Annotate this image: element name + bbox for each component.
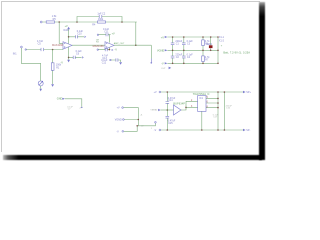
svg-text:IC1: IC1 [199,97,203,100]
resistor R6 [202,37,204,50]
capacitor C16 vertical B [223,92,225,130]
svg-text:+V: +V [161,36,164,39]
svg-text:+V: +V [154,91,157,94]
wire top net [42,21,137,23]
wire ic gnd stub [201,111,203,130]
resistor R7 [202,50,204,63]
svg-text:LED1: LED1 [206,43,213,46]
power -V op-amp1 [68,47,70,60]
IC IC1 TDA7052 [198,96,206,112]
svg-text:-V: -V [161,63,164,66]
LED LED1 [210,37,212,50]
capacitor C11 [97,34,98,35]
svg-text:C17: C17 [213,117,218,119]
svg-text:IN1: IN1 [13,53,17,56]
power +V op-amp2 [108,35,110,43]
svg-text:MAX4166: MAX4166 [52,44,64,47]
capacitor C10 [68,36,70,38]
wire row1 [124,108,139,120]
wire feedback vertical [136,22,152,45]
svg-text:+V: +V [65,25,68,28]
resistor R1 [52,49,54,51]
svg-text:R1: R1 [56,66,60,69]
capacitor C2b [172,50,174,63]
svg-text:-V: -V [116,131,119,134]
wire row2 [124,120,155,126]
wire +V rail [167,36,218,38]
svg-text:+V: +V [117,107,120,110]
capacitor C12 run [110,59,111,60]
pin IN1 [20,46,22,48]
pin P2 top net [40,21,42,23]
svg-text:SP+: SP+ [246,91,251,94]
capacitor C3 [183,37,185,50]
svg-text:GND: GND [57,98,63,101]
capacitor C2 [99,15,102,18]
wire VGND rail [167,49,218,51]
microphone MK1 [38,81,43,86]
buffer U2 [174,105,182,115]
svg-text:C16: C16 [226,108,231,110]
capacitor C4 [183,50,185,63]
wire output down [150,45,152,58]
svg-text:+: + [221,45,223,48]
svg-text:BUF634P: BUF634P [173,103,185,106]
ground arrow R1 [51,84,54,87]
svg-text:X1-2: X1-2 [219,39,225,42]
svg-text:1: 1 [151,128,153,130]
battery connector X1 [217,37,219,63]
frame left [1,1,2,152]
wire feedback loop [77,17,122,23]
capacitor C5 [41,48,44,51]
wire gnd stub [65,99,82,107]
wire right vertical A [217,92,219,130]
power +V op-amp1 [68,29,70,44]
capacitor C14 [166,92,168,110]
svg-text:MAX4166: MAX4166 [93,45,105,48]
svg-text:VGND: VGND [115,119,122,122]
svg-text:-V: -V [114,49,117,52]
svg-text:Batt, 7.2-9V (!), 0.25A: Batt, 7.2-9V (!), 0.25A [223,51,250,54]
capacitor C15 [166,110,168,130]
frame right shadow [259,2,265,160]
pin SP- [243,129,246,131]
wire ic stubs right [206,98,218,107]
svg-text:C15: C15 [168,122,173,125]
wire +V rail amp [161,91,243,93]
svg-text:160k: 160k [98,18,104,21]
svg-text:-V: -V [154,129,157,132]
svg-text:1nF C2: 1nF C2 [97,12,106,15]
svg-text:C7: C7 [68,109,72,111]
frame top [1,1,260,2]
wire output stage 2 + net label [114,44,136,46]
wire row3 [124,126,137,132]
wire below mic [40,86,42,89]
svg-text:R5: R5 [53,18,57,21]
frame bottom shadow [3,155,262,160]
resistor R5 [46,21,54,23]
wire non-inverting input 1 [25,49,26,50]
pin SP+ [243,91,246,93]
junction node C [121,21,123,23]
wire buffer out [181,101,186,110]
svg-text:C12: C12 [102,61,107,64]
svg-text:AMP_OUT: AMP_OUT [114,42,125,45]
wire ic stubs left [186,101,198,107]
svg-text:IC2A: IC2A [63,29,69,32]
ground arrow mic [39,89,42,92]
svg-text:+V: +V [112,32,115,35]
svg-text:R3: R3 [96,42,100,44]
capacitor C6 [68,57,70,59]
capacitor C1 [172,37,174,50]
svg-text:C10: C10 [77,32,82,35]
op-amp IC2B [105,42,114,50]
wire vbrat [161,109,174,111]
junction node B [76,21,78,23]
power -V op-amp2 [108,48,110,50]
wire -V rail [167,62,218,64]
wire stage link [72,44,105,46]
svg-text:R4: R4 [92,24,96,27]
wire -V rail amp [161,129,243,131]
wire input to mic [21,48,40,81]
junction node A [58,21,60,23]
svg-text:SP-: SP- [246,129,250,132]
svg-text:VGND: VGND [157,50,164,53]
svg-text:J1: J1 [140,114,143,116]
svg-text:C11: C11 [104,30,109,33]
capacitor C13 run [97,49,98,50]
svg-text:VBRAT: VBRAT [150,108,158,111]
svg-text:-V: -V [60,61,63,64]
wire inverting input 1 [59,22,63,43]
op-amp IC2A [63,42,72,50]
svg-text:OUT: OUT [161,68,166,70]
resistor R4 [98,21,106,23]
